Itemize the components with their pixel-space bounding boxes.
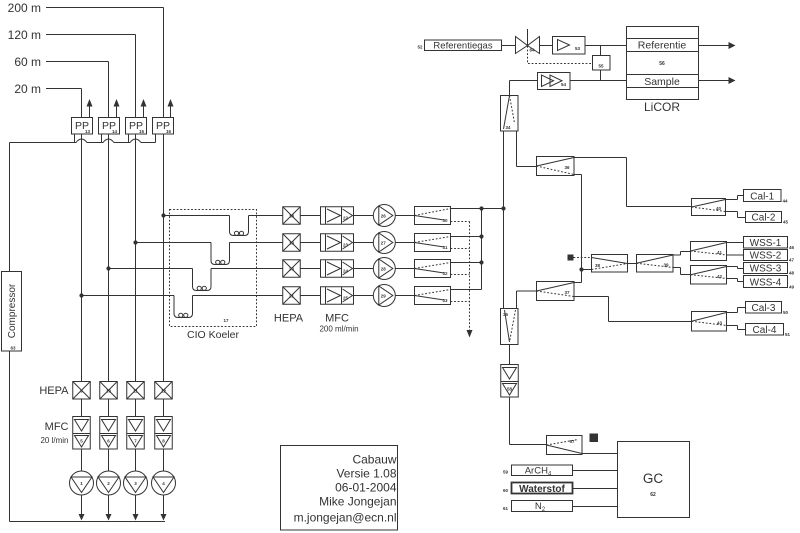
svg-text:23: 23 <box>343 243 349 248</box>
svg-text:WSS-1: WSS-1 <box>750 238 782 249</box>
svg-text:Waterstof: Waterstof <box>519 484 565 495</box>
svg-text:39: 39 <box>663 262 669 267</box>
svg-text:49: 49 <box>789 285 795 290</box>
svg-text:Referentie: Referentie <box>638 40 687 52</box>
svg-text:59: 59 <box>503 470 509 475</box>
svg-text:Versie 1.08: Versie 1.08 <box>336 467 396 481</box>
svg-text:31: 31 <box>442 245 448 250</box>
svg-text:24: 24 <box>343 269 349 274</box>
svg-text:38: 38 <box>595 263 601 268</box>
svg-text:35: 35 <box>503 312 509 317</box>
svg-text:18: 18 <box>289 214 295 219</box>
svg-text:WSS-2: WSS-2 <box>750 250 782 261</box>
svg-text:20 m: 20 m <box>14 82 41 96</box>
svg-text:12: 12 <box>161 388 167 393</box>
svg-text:57: 57 <box>569 439 575 444</box>
svg-text:36: 36 <box>564 165 570 170</box>
svg-text:HEPA: HEPA <box>39 385 69 397</box>
svg-text:Compressor: Compressor <box>7 283 18 338</box>
svg-text:62: 62 <box>650 492 656 498</box>
svg-text:34: 34 <box>505 125 511 130</box>
svg-text:ArCH4: ArCH4 <box>525 466 552 478</box>
svg-text:58: 58 <box>507 387 513 392</box>
svg-text:14: 14 <box>112 129 118 134</box>
svg-text:GC: GC <box>643 471 664 486</box>
svg-text:53: 53 <box>575 46 581 51</box>
svg-text:61: 61 <box>503 506 509 511</box>
svg-text:Mike Jongejan: Mike Jongejan <box>319 495 396 509</box>
svg-text:55: 55 <box>598 64 604 69</box>
svg-text:45: 45 <box>783 220 789 225</box>
svg-text:44: 44 <box>782 199 788 204</box>
svg-text:40: 40 <box>716 206 722 211</box>
svg-text:29: 29 <box>381 294 387 299</box>
svg-text:43: 43 <box>717 320 723 325</box>
svg-text:WSS-4: WSS-4 <box>750 277 782 288</box>
svg-text:120 m: 120 m <box>8 28 41 42</box>
svg-text:Cal-1: Cal-1 <box>750 191 774 202</box>
svg-text:Referentiegas: Referentiegas <box>433 41 492 52</box>
svg-text:30: 30 <box>442 218 448 223</box>
svg-text:26: 26 <box>381 214 387 219</box>
svg-text:21: 21 <box>289 294 295 299</box>
svg-text:16: 16 <box>166 129 172 134</box>
svg-text:15: 15 <box>139 129 145 134</box>
svg-text:42: 42 <box>717 274 723 279</box>
svg-text:46: 46 <box>789 245 795 250</box>
svg-text:64: 64 <box>529 48 535 53</box>
svg-text:11: 11 <box>133 388 138 393</box>
svg-text:Cal-3: Cal-3 <box>752 303 776 314</box>
svg-text:Cal-2: Cal-2 <box>752 212 776 223</box>
svg-text:HEPA: HEPA <box>274 313 304 325</box>
svg-text:Sample: Sample <box>644 76 680 88</box>
svg-text:LiCOR: LiCOR <box>644 100 680 114</box>
svg-text:27: 27 <box>381 241 387 246</box>
svg-text:52: 52 <box>417 45 423 50</box>
svg-text:WSS-3: WSS-3 <box>750 263 782 274</box>
svg-text:50: 50 <box>783 310 789 315</box>
svg-text:MFC: MFC <box>325 313 349 325</box>
svg-text:20 l/min: 20 l/min <box>40 436 68 445</box>
svg-text:06-01-2004: 06-01-2004 <box>335 481 397 495</box>
svg-text:10: 10 <box>106 388 112 393</box>
svg-text:17: 17 <box>223 318 229 323</box>
svg-text:m.jongejan@ecn.nl: m.jongejan@ecn.nl <box>294 511 397 525</box>
svg-text:60: 60 <box>503 488 509 493</box>
svg-text:Cal-4: Cal-4 <box>753 325 777 336</box>
svg-text:41: 41 <box>717 250 723 255</box>
svg-text:60 m: 60 m <box>14 55 41 69</box>
svg-text:32: 32 <box>442 271 448 276</box>
svg-text:56: 56 <box>659 61 665 67</box>
svg-text:37: 37 <box>564 290 570 295</box>
svg-text:51: 51 <box>785 332 791 337</box>
svg-text:MFC: MFC <box>45 421 69 433</box>
svg-text:CIO Koeler: CIO Koeler <box>187 329 239 341</box>
svg-text:54: 54 <box>561 82 567 87</box>
svg-text:47: 47 <box>789 258 795 263</box>
svg-text:200 m: 200 m <box>8 1 41 15</box>
svg-text:48: 48 <box>789 271 795 276</box>
svg-text:200 ml/min: 200 ml/min <box>319 325 358 334</box>
svg-text:19: 19 <box>289 241 295 246</box>
svg-text:25: 25 <box>343 296 349 301</box>
svg-text:63: 63 <box>10 346 16 351</box>
svg-text:20: 20 <box>289 267 295 272</box>
svg-text:Cabauw: Cabauw <box>352 452 396 466</box>
svg-text:22: 22 <box>343 216 349 221</box>
svg-text:33: 33 <box>442 298 448 303</box>
svg-text:28: 28 <box>381 267 387 272</box>
svg-text:13: 13 <box>85 129 91 134</box>
